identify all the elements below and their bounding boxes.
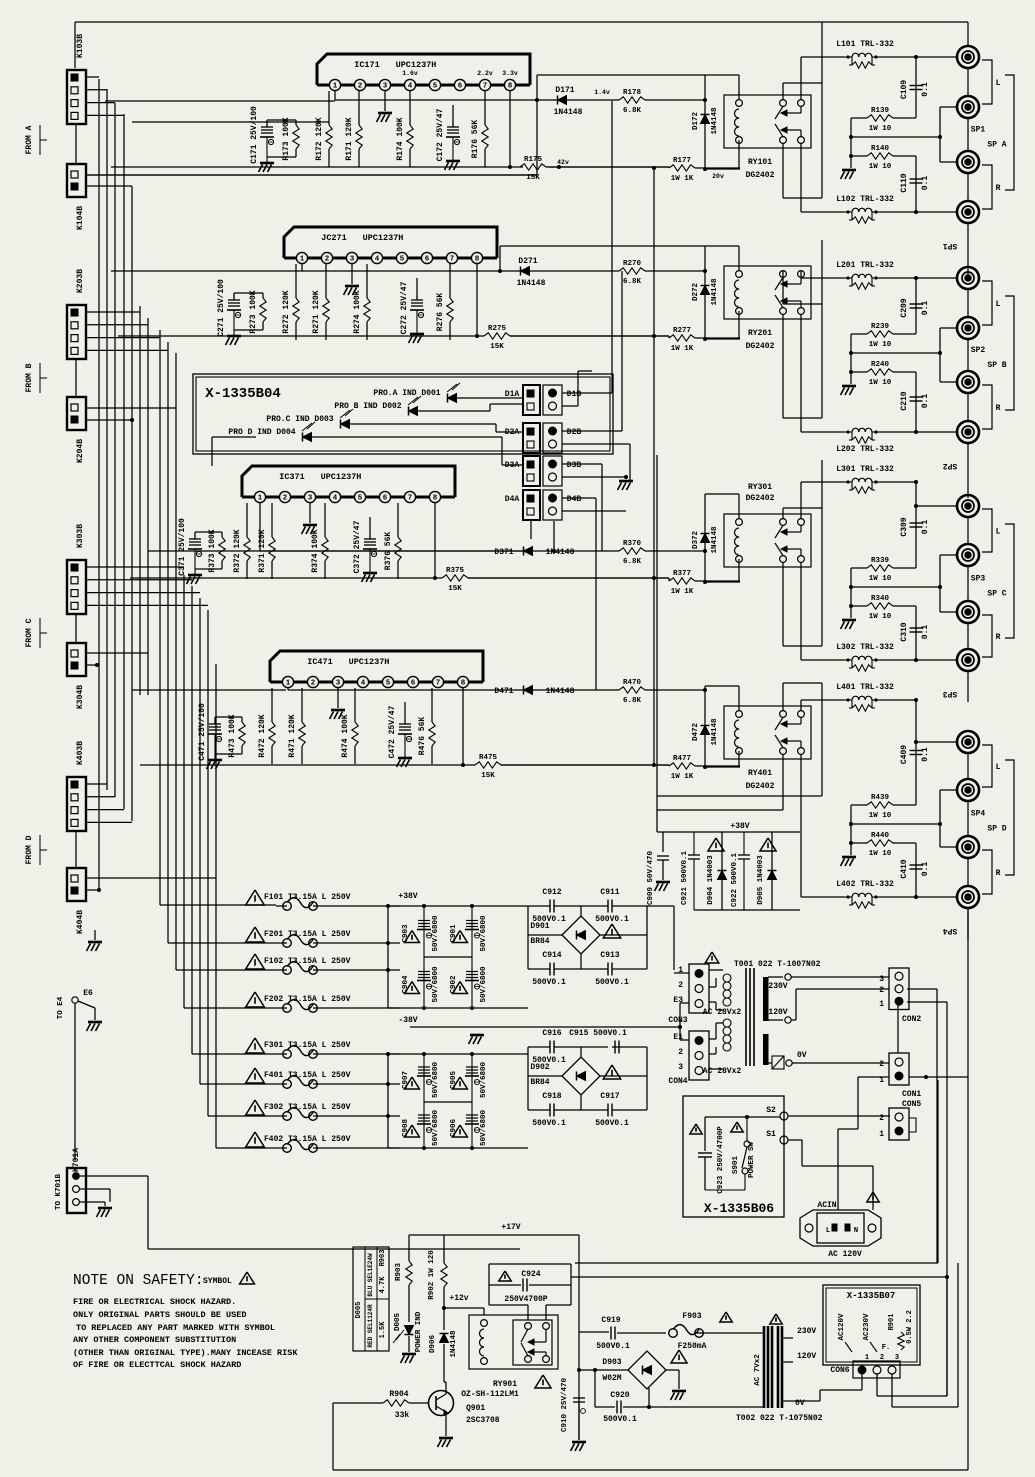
svg-text:5: 5 [433, 83, 438, 91]
svg-text:3.3v: 3.3v [502, 70, 518, 77]
wire jack2 feed [939, 107, 941, 162]
svg-text:RED SEL1124R: RED SEL1124R [367, 1304, 374, 1348]
wire relay coil bottom [738, 751, 740, 767]
svg-text:1: 1 [865, 1354, 869, 1362]
svg-text:1: 1 [258, 495, 263, 503]
svg-text:F402 T3.15A L 250V: F402 T3.15A L 250V [264, 1135, 351, 1144]
wire channel A net to relay [105, 100, 335, 102]
wire rail [215, 716, 242, 718]
svg-text:4: 4 [333, 495, 338, 503]
fuse F401 T3.15A L 250V [246, 1068, 265, 1083]
connector CON4 [689, 1031, 709, 1080]
connector K204B [67, 397, 86, 430]
svg-text:15K: 15K [448, 585, 462, 593]
wire relay commons [800, 482, 802, 519]
svg-text:C922 500V0.1: C922 500V0.1 [731, 852, 739, 907]
warning triangle note [240, 1272, 255, 1284]
ground R pair [842, 856, 856, 859]
ground E6 [94, 1008, 96, 1020]
svg-text:POWER IND: POWER IND [415, 1311, 423, 1352]
wire R pair vertical [850, 805, 852, 855]
svg-text:L301 TRL-332: L301 TRL-332 [836, 465, 894, 474]
wire protection chain x654 [653, 168, 655, 765]
svg-text:50V/6800: 50V/6800 [432, 1062, 440, 1099]
svg-text:0.1: 0.1 [921, 82, 930, 97]
speaker jack SP2 R+ [957, 371, 979, 393]
svg-text:R339: R339 [871, 557, 890, 565]
ground diode matrix [625, 477, 627, 479]
speaker jack SP4 L+ [957, 731, 979, 753]
wire pin8 drop [434, 503, 436, 578]
svg-text:F301 T3.15A L 250V: F301 T3.15A L 250V [264, 1041, 351, 1050]
speaker jack SP4 L- [957, 779, 979, 801]
svg-text:R140: R140 [871, 145, 890, 153]
svg-text:1W 10: 1W 10 [869, 163, 892, 171]
svg-text:120V: 120V [768, 1008, 787, 1017]
svg-text:R903: R903 [395, 1263, 403, 1282]
svg-text:+12v: +12v [449, 1294, 468, 1303]
transistor Q901 2SC3708 [429, 1391, 454, 1416]
wire mid net [851, 823, 940, 825]
speaker jack SP3 R- [957, 649, 979, 671]
wire mid bus x160 [159, 330, 161, 905]
resistor R274 [366, 264, 368, 298]
svg-text:D4A: D4A [505, 495, 520, 504]
svg-text:PRO D IND D004: PRO D IND D004 [228, 428, 295, 437]
resistor R470 6.8K [533, 689, 619, 691]
svg-text:OZ-SH-112LM1: OZ-SH-112LM1 [461, 1390, 519, 1399]
svg-text:4: 4 [361, 680, 366, 688]
svg-text:BR84: BR84 [530, 1078, 549, 1087]
speaker jack SP3 L- [957, 544, 979, 566]
wire channel B R275 line [118, 335, 484, 337]
speaker jack SP1 L- [957, 96, 979, 118]
svg-text:R370: R370 [623, 540, 642, 548]
svg-text:AC120V: AC120V [838, 1313, 846, 1341]
svg-text:C372 25V/47: C372 25V/47 [353, 520, 362, 573]
capacitor C902 50V/6800 [466, 971, 478, 973]
svg-text:D902: D902 [530, 1063, 549, 1072]
wire channel D R475 line [140, 764, 475, 766]
diode D172 1N4148 relay coil [704, 75, 706, 169]
svg-text:UPC1237H: UPC1237H [396, 60, 437, 70]
svg-text:FROM B: FROM B [25, 363, 34, 392]
svg-text:R377: R377 [673, 570, 691, 578]
relay RY101 DG2402 [724, 95, 811, 148]
bracket R [982, 165, 992, 209]
svg-text:C919: C919 [601, 1316, 620, 1325]
svg-text:PRO B IND D002: PRO B IND D002 [334, 402, 401, 411]
svg-text:C923 250V/4700P: C923 250V/4700P [717, 1126, 725, 1194]
svg-text:C309: C309 [900, 517, 909, 536]
relay RY901 OZ-SH-112LM1 [469, 1315, 558, 1369]
svg-text:3: 3 [895, 1354, 899, 1362]
svg-text:3: 3 [308, 495, 313, 503]
svg-text:7: 7 [408, 495, 413, 503]
wires PRO leds [457, 397, 523, 399]
svg-text:S1: S1 [766, 1130, 776, 1139]
wire bottom right vertical [925, 986, 927, 988]
svg-text:N: N [854, 1227, 858, 1235]
wire rail [267, 119, 296, 121]
svg-text:BLU SEL1E24W: BLU SEL1E24W [367, 1253, 374, 1297]
svg-text:2: 2 [325, 256, 330, 264]
svg-text:3: 3 [336, 680, 341, 688]
svg-text:C409: C409 [900, 745, 909, 764]
svg-text:L: L [826, 1227, 830, 1235]
svg-text:C209: C209 [900, 298, 909, 317]
fuse F301 T3.15A L 250V [246, 1038, 265, 1053]
wire pin8 drop [476, 264, 478, 336]
svg-text:D4B: D4B [567, 495, 582, 504]
svg-text:ACIN: ACIN [817, 1201, 836, 1210]
resistor R273 [262, 293, 264, 298]
diode D471 1N4148 [524, 686, 533, 695]
wire relay commons [800, 271, 802, 278]
svg-text:500V0.1: 500V0.1 [595, 978, 629, 987]
svg-text:50V/6800: 50V/6800 [480, 1062, 488, 1099]
svg-text:42v: 42v [557, 159, 569, 166]
svg-text:R475: R475 [479, 754, 498, 762]
svg-text:W02M: W02M [602, 1374, 621, 1383]
ground pin3 [337, 688, 339, 708]
svg-text:C909 50V/470: C909 50V/470 [647, 850, 655, 905]
speaker jack SP4 R+ [957, 836, 979, 858]
primary winding 2 [723, 1019, 731, 1027]
svg-text:AC 120V: AC 120V [828, 1250, 862, 1259]
svg-text:R172 120K: R172 120K [315, 117, 324, 160]
inductor L302 TRL-332 [845, 659, 852, 661]
wire left bus x107 [106, 89, 108, 790]
resistor R139 1W 10 [867, 115, 893, 121]
svg-text:D903: D903 [602, 1358, 621, 1367]
resistor R475 15K [475, 762, 501, 768]
svg-text:1W 10: 1W 10 [869, 125, 892, 133]
svg-text:500V0.1: 500V0.1 [596, 1342, 630, 1351]
svg-text:SP A: SP A [987, 141, 1006, 150]
svg-text:R902 1W 120: R902 1W 120 [428, 1250, 436, 1300]
svg-text:D1B: D1B [567, 390, 582, 399]
svg-text:C906: C906 [450, 1119, 458, 1138]
svg-text:6.8K: 6.8K [623, 558, 642, 566]
svg-text:D271: D271 [518, 257, 537, 266]
svg-text:R472 120K: R472 120K [258, 714, 267, 757]
svg-text:C271 25V/100: C271 25V/100 [217, 279, 226, 337]
svg-text:POWER SW: POWER SW [748, 1142, 756, 1179]
wire relay coil top [500, 245, 739, 247]
inductor L401 TRL-332 [845, 699, 852, 701]
capacitor C906 50V/6800 [466, 1114, 478, 1116]
svg-text:F202 T3.15A L 250V: F202 T3.15A L 250V [264, 995, 351, 1004]
svg-text:1N4148: 1N4148 [546, 687, 575, 696]
svg-text:R175: R175 [524, 156, 543, 164]
svg-text:50V/6800: 50V/6800 [480, 966, 488, 1003]
speaker jack SP4 R- [957, 886, 979, 908]
svg-text:R474 100K: R474 100K [341, 714, 350, 757]
bracket CON5 [909, 1118, 916, 1132]
svg-text:D371: D371 [494, 548, 513, 557]
wire +17V long feed [571, 1276, 947, 1278]
svg-text:C918: C918 [542, 1092, 561, 1101]
svg-text:6.8K: 6.8K [623, 107, 642, 115]
wire R pair vertical [850, 334, 852, 384]
capacitor C172 [452, 105, 454, 127]
svg-text:FROM A: FROM A [25, 125, 34, 154]
svg-text:R: R [996, 869, 1001, 878]
capacitor C372 [369, 517, 371, 539]
bracket L [982, 745, 992, 787]
svg-text:L401 TRL-332: L401 TRL-332 [836, 683, 894, 692]
svg-text:IC171: IC171 [354, 60, 380, 70]
svg-text:CON6: CON6 [830, 1366, 849, 1375]
resistor R439 1W 10 [867, 802, 893, 808]
fuse F101 T3.15A L 250V [246, 890, 265, 905]
svg-text:50V/6800: 50V/6800 [432, 915, 440, 952]
svg-text:C910 25V/470: C910 25V/470 [561, 1377, 569, 1432]
bracket SP C [1005, 524, 1014, 638]
svg-text:0.1: 0.1 [921, 747, 930, 762]
resistor R140 1W 10 [867, 153, 893, 159]
svg-text:R275: R275 [488, 325, 507, 333]
svg-text:CON1: CON1 [902, 1090, 921, 1099]
svg-text:L: L [996, 528, 1001, 537]
capacitor C310 0.1 [915, 606, 917, 660]
bracket R [982, 850, 992, 894]
svg-text:6: 6 [425, 256, 430, 264]
svg-text:5: 5 [358, 495, 363, 503]
svg-text:SP D: SP D [987, 825, 1006, 834]
wire rail [195, 531, 222, 533]
svg-text:7: 7 [436, 680, 441, 688]
wire channel A R175 line [111, 166, 523, 168]
svg-text:C109: C109 [900, 80, 909, 99]
svg-text:DG2402: DG2402 [746, 171, 775, 180]
bracket SP A [1005, 75, 1014, 190]
svg-text:FROM D: FROM D [25, 835, 34, 864]
fuse F201 T3.15A L 250V [246, 927, 265, 942]
svg-text:0V: 0V [797, 1051, 807, 1060]
svg-text:R471 120K: R471 120K [288, 714, 297, 757]
wire left bus x99 [98, 79, 100, 890]
wire CON5 pin1 left [858, 1076, 889, 1078]
svg-text:50V/6800: 50V/6800 [480, 1110, 488, 1147]
wire T002 primary [730, 1332, 764, 1334]
svg-text:2: 2 [311, 680, 316, 688]
svg-text:5: 5 [400, 256, 405, 264]
ground C910 [578, 1402, 580, 1440]
resistor R370 6.8K [533, 550, 619, 552]
svg-text:X-1335B04: X-1335B04 [205, 386, 281, 402]
svg-text:SP1: SP1 [971, 126, 986, 135]
ground R pair [842, 385, 856, 388]
diode D372 1N4148 relay coil [704, 494, 706, 582]
svg-text:R178: R178 [623, 89, 642, 97]
svg-text:R476 56K: R476 56K [418, 717, 427, 756]
wires rect block [528, 905, 550, 907]
svg-text:4.7K: 4.7K [379, 1276, 387, 1294]
wire mid bus x168 [167, 342, 169, 943]
svg-text:C901: C901 [450, 924, 458, 943]
svg-text:8: 8 [475, 256, 480, 264]
capacitor C410 0.1 [915, 843, 917, 897]
svg-text:UPC1237H: UPC1237H [363, 233, 404, 243]
diode D271 1N4148 [521, 267, 530, 276]
svg-text:1N4148: 1N4148 [711, 526, 719, 554]
svg-text:PRO.C IND D003: PRO.C IND D003 [266, 415, 333, 424]
svg-text:C921 500V0.1: C921 500V0.1 [681, 850, 689, 905]
svg-text:1N4148: 1N4148 [711, 278, 719, 306]
svg-text:CON4: CON4 [668, 1077, 687, 1086]
wire right bus [967, 22, 969, 46]
wire bank1 left vertical [387, 906, 389, 1008]
ground pin3 [351, 264, 353, 284]
svg-text:L302 TRL-332: L302 TRL-332 [836, 643, 894, 652]
fuse F402 T3.15A L 250V [246, 1132, 265, 1147]
wire x947 down [946, 1002, 948, 1396]
bracket R [982, 615, 992, 657]
svg-text:R440: R440 [871, 832, 890, 840]
connector K404B [67, 868, 86, 901]
svg-text:-38V: -38V [398, 1016, 417, 1025]
wire rect to CON3 [647, 905, 674, 907]
inductor wire L202 [879, 431, 916, 433]
svg-text:R: R [996, 184, 1001, 193]
svg-text:50V/6800: 50V/6800 [432, 966, 440, 1003]
tap 230V [768, 976, 783, 978]
svg-text:8: 8 [508, 83, 513, 91]
wire relay staircase [783, 303, 822, 305]
svg-text:6.8K: 6.8K [623, 278, 642, 286]
svg-text:K104B: K104B [76, 206, 85, 230]
svg-text:(OTHER THAN ORIGINAL TYPE).MAN: (OTHER THAN ORIGINAL TYPE).MANY INCEASE … [73, 1348, 298, 1358]
resistor R477 1W 1K [669, 763, 695, 769]
svg-text:5: 5 [386, 680, 391, 688]
svg-text:F101 T3.15A L 250V: F101 T3.15A L 250V [264, 893, 351, 902]
resistor R377 1W 1K [669, 578, 695, 584]
inductor L102 TRL-332 [845, 211, 852, 213]
svg-text:C471 25V/100: C471 25V/100 [198, 703, 207, 761]
svg-text:3: 3 [383, 83, 388, 91]
svg-text:SP2: SP2 [943, 461, 958, 470]
wire bottom bus [333, 1469, 968, 1471]
svg-text:33k: 33k [395, 1411, 410, 1420]
svg-text:1.6v: 1.6v [402, 70, 418, 77]
resistor R440 1W 10 [867, 840, 893, 846]
svg-text:4: 4 [375, 256, 380, 264]
svg-text:BR84: BR84 [530, 937, 549, 946]
wire coil to jack1 [879, 277, 916, 279]
svg-text:F102 T3.15A L 250V: F102 T3.15A L 250V [264, 957, 351, 966]
wire left bus x132 [131, 186, 133, 821]
diode D905 1N4003 [760, 838, 776, 851]
primary winding 1 [723, 974, 731, 982]
wires CON6 [861, 1374, 863, 1390]
speaker jack SP1 R+ [957, 151, 979, 173]
svg-text:K203B: K203B [76, 269, 85, 293]
svg-text:D472: D472 [692, 723, 700, 742]
svg-text:C924: C924 [521, 1270, 540, 1279]
capacitor C909 50V/470 [662, 832, 664, 852]
svg-text:2: 2 [678, 1048, 683, 1057]
capacitor C272 [416, 278, 418, 300]
svg-text:SP C: SP C [987, 590, 1006, 599]
wire net under IC [259, 503, 261, 551]
bracket SP D [1005, 760, 1014, 875]
svg-text:6: 6 [411, 680, 416, 688]
fuse F302 T3.15A L 250V [246, 1100, 265, 1115]
resistor R177 1W 1K [669, 165, 695, 171]
wire bottom of upper frame [575, 1262, 938, 1264]
svg-text:1W 1K: 1W 1K [671, 175, 694, 183]
resistor R474 [354, 688, 356, 722]
svg-text:R: R [996, 633, 1001, 642]
svg-text:1W 10: 1W 10 [869, 379, 892, 387]
svg-text:ANY OTHER COMPONENT SUBSTITUTI: ANY OTHER COMPONENT SUBSTITUTION [73, 1335, 236, 1345]
wire jack bus [967, 517, 969, 544]
wire coil to jack1 [879, 56, 916, 58]
wire channel A rail feed [132, 121, 329, 123]
svg-text:2: 2 [358, 83, 363, 91]
svg-text:1: 1 [678, 966, 683, 975]
wire left bus x148 [147, 318, 149, 695]
diode D904 1N4003 [708, 838, 724, 851]
wire jack2 feed [939, 328, 941, 382]
svg-text:NOTE ON SAFETY:: NOTE ON SAFETY: [73, 1273, 204, 1289]
wire CON3 to windings [709, 969, 723, 971]
svg-text:K303B: K303B [76, 524, 85, 548]
capacitor C109 0.1 [910, 85, 923, 87]
wire AC inlet [837, 1129, 839, 1210]
svg-text:D2A: D2A [505, 428, 520, 437]
svg-text:C110: C110 [900, 173, 909, 192]
inductor L201 TRL-332 [845, 277, 852, 279]
svg-text:L102 TRL-332: L102 TRL-332 [836, 195, 894, 204]
capacitor C271 [233, 293, 235, 300]
svg-text:2: 2 [880, 1354, 884, 1362]
wire jack2 feed [939, 790, 941, 847]
wire mid net [851, 352, 940, 354]
svg-text:0.1: 0.1 [921, 176, 930, 191]
svg-text:1.5K: 1.5K [379, 1321, 387, 1339]
wire net under IC [287, 688, 289, 690]
svg-text:C912: C912 [542, 888, 561, 897]
speaker jack SP3 R+ [957, 601, 979, 623]
svg-text:K404B: K404B [76, 910, 85, 934]
svg-text:IC471: IC471 [307, 657, 333, 667]
wire 120V return [957, 1263, 959, 1407]
ground D005 [402, 1353, 416, 1356]
svg-text:C917: C917 [600, 1092, 619, 1101]
svg-text:R176 56K: R176 56K [471, 120, 480, 159]
svg-text:AC230V: AC230V [863, 1313, 871, 1341]
diode D371 1N4148 [524, 547, 533, 556]
speaker jack SP1 R- [957, 201, 979, 223]
svg-text:8: 8 [461, 680, 466, 688]
svg-text:L201 TRL-332: L201 TRL-332 [836, 261, 894, 270]
svg-text:C902: C902 [450, 975, 458, 994]
svg-text:SP B: SP B [987, 361, 1006, 370]
svg-text:D905 1N4003: D905 1N4003 [757, 855, 765, 905]
wire S2 to CON5 [788, 1115, 890, 1117]
wire CON2 pin2 right [907, 988, 937, 990]
resistor R476 [431, 688, 433, 722]
svg-text:S2: S2 [766, 1106, 776, 1115]
inductor wire L302 [879, 659, 916, 661]
capacitor C471 [214, 717, 216, 724]
capacitor C904 50V/6800 [418, 971, 430, 973]
svg-text:F903: F903 [682, 1312, 701, 1321]
connector K304B [67, 643, 86, 676]
